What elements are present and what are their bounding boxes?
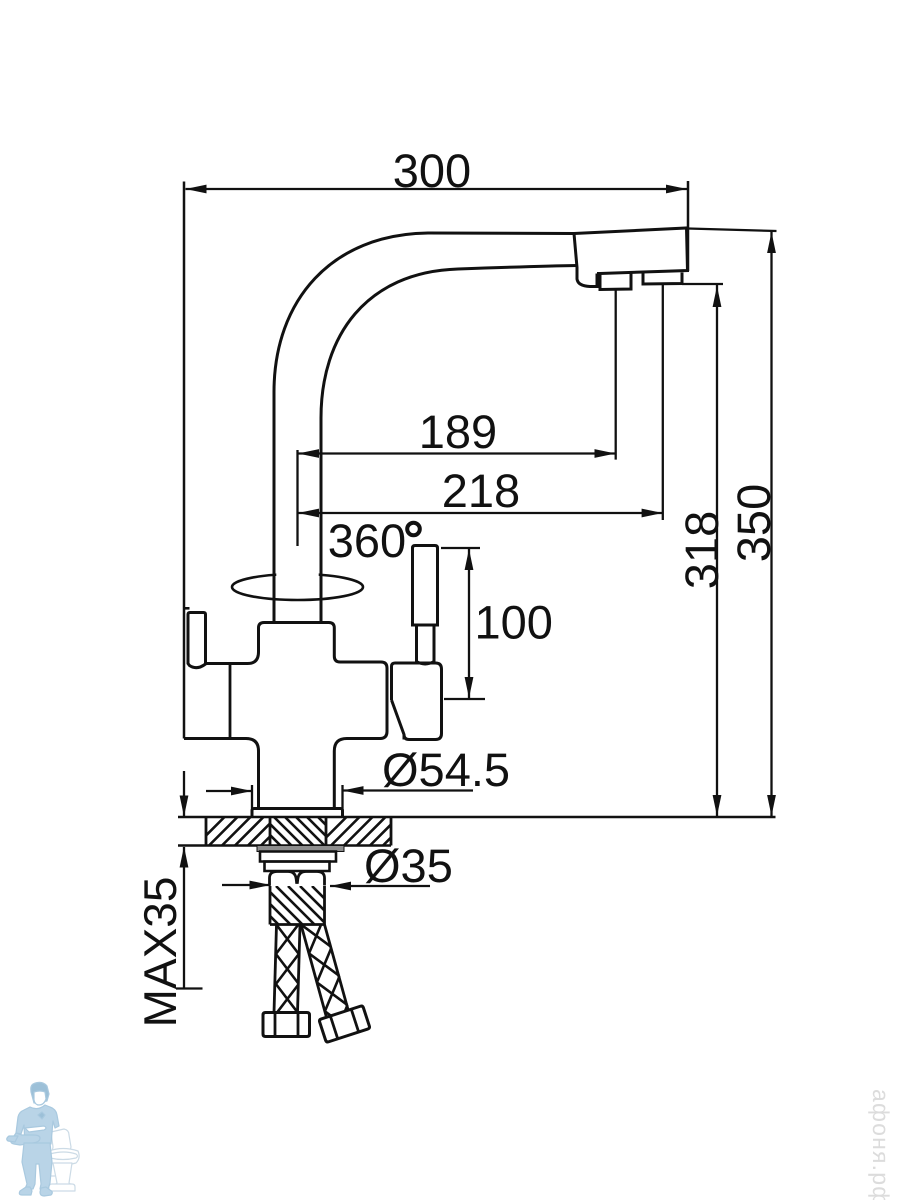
svg-text:318: 318 [675,511,728,589]
dim MAX35 lower line [180,847,189,989]
right hose fitting [319,1005,370,1042]
filter outlet mount [392,663,442,740]
dome nut [270,872,325,886]
dim 100 top tick [441,547,480,549]
rotation ellipse 360 [232,568,363,600]
threaded shank [240,886,363,925]
dim 318 extension (head bottom) [682,283,723,285]
dim 300 extension right [687,181,690,271]
locknut step 1 [260,852,336,862]
svg-text:300: 300 [393,144,471,197]
dim 100 label [475,596,553,649]
label 360 degrees [328,514,420,567]
left valve cap divider [229,665,232,739]
dim 218 label [442,464,520,517]
dim 35 label [364,839,453,892]
dim MAX35 upper arrow [180,771,189,817]
base flange [252,809,343,818]
body cross outline [184,623,387,809]
dim 189 line [298,449,616,458]
countertop (hatched section) [178,817,776,846]
dim 35 line left [222,881,271,890]
dim 300 label [393,144,471,197]
gasket (gray band) [257,846,344,852]
riser tube sides [274,560,321,624]
dim 100 bottom tick [444,698,485,700]
dim 350 line [767,231,776,817]
dim 35 line right [330,882,430,891]
dim 189 extension (center axis) [296,450,298,546]
svg-text:360: 360 [328,514,406,567]
svg-text:218: 218 [442,464,520,517]
dim 100 line [465,548,474,699]
dim 189 extension (aerator) [615,289,617,460]
watermark vertical site text [868,1089,894,1200]
dim MAX35 bottom tick [176,987,203,989]
left hose fitting [263,1013,310,1037]
filter lever (right) [413,546,438,665]
dim 218 line [298,509,663,518]
right hose (braided) [301,918,356,1040]
spout tube (curved) [274,233,577,624]
dim 54.5 line right [343,786,474,795]
svg-text:350: 350 [727,484,780,562]
side handle (left lever) [188,613,206,668]
svg-text:Ø35: Ø35 [364,839,453,892]
aerator ring right [643,272,682,284]
left valve top tick [183,607,190,610]
dim 54.5 extension left [251,785,253,809]
dim 54.5 label [382,743,510,796]
dim 218 extension (aerator right) [662,284,664,520]
spout head block [574,228,688,287]
dim 318 label [675,511,728,589]
dim 189 label [419,405,497,458]
dim 300 extension left [183,182,186,739]
dim 54.5 line left [206,787,252,796]
svg-text:афоня.рф: афоня.рф [868,1089,894,1200]
svg-text:100: 100 [475,596,553,649]
dim 54.5 extension right [341,785,343,809]
left hose (braided) [274,924,300,1014]
dim 300 line [186,185,688,194]
dim MAX35 label [134,877,186,1028]
watermark plumber logo [7,1082,79,1196]
svg-text:Ø54.5: Ø54.5 [382,743,510,796]
aerator ring left [600,273,631,290]
svg-text:MAX35: MAX35 [134,877,186,1028]
svg-text:189: 189 [419,405,497,458]
dim 350 label [727,484,780,562]
dim 318 line [713,285,722,817]
dim 350 extension (head top) [688,229,777,232]
locknut step 2 [265,862,330,872]
